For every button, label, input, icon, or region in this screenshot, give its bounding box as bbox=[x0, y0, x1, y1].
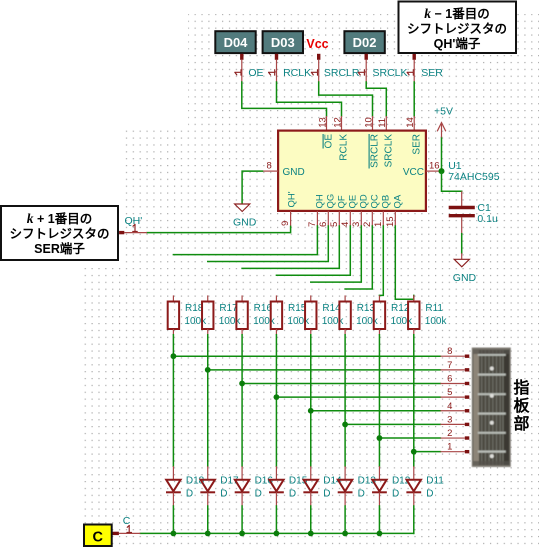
svg-text:k + 1番目の: k + 1番目の bbox=[27, 211, 92, 226]
wire R15 down to diode bbox=[275, 335, 277, 467]
svg-text:100k: 100k bbox=[322, 316, 345, 327]
svg-text:部: 部 bbox=[513, 414, 529, 433]
svg-text:D: D bbox=[289, 489, 296, 500]
svg-text:OE: OE bbox=[324, 134, 335, 149]
svg-text:RCLK: RCLK bbox=[339, 134, 350, 161]
wire pin to R15 bbox=[276, 226, 350, 275]
pin 16 VCC bbox=[426, 170, 442, 172]
resistor R16 bbox=[241, 295, 243, 301]
svg-text:R15: R15 bbox=[288, 303, 307, 314]
wire D12 to bus bbox=[378, 506, 380, 533]
svg-text:10: 10 bbox=[363, 117, 374, 128]
wire R18 down to diode bbox=[172, 335, 174, 467]
svg-text:11: 11 bbox=[377, 118, 388, 128]
wire D18 to bus bbox=[172, 506, 174, 533]
svg-text:QH': QH' bbox=[286, 191, 297, 207]
resistor R17 bbox=[207, 295, 209, 301]
svg-text:R11: R11 bbox=[425, 303, 443, 314]
svg-text:D11: D11 bbox=[426, 476, 444, 487]
svg-text:100k: 100k bbox=[390, 316, 413, 327]
wire pin to R14 bbox=[311, 226, 362, 282]
svg-text:R18: R18 bbox=[185, 303, 204, 314]
pin 6 QG bbox=[327, 211, 329, 226]
fretboard pin 6 bbox=[440, 382, 464, 384]
svg-text:5: 5 bbox=[329, 222, 340, 227]
pin 13 bbox=[326, 116, 328, 131]
fretboard pin 3 bbox=[440, 423, 464, 425]
wire D15 to bus bbox=[275, 506, 277, 533]
svg-text:9: 9 bbox=[280, 221, 291, 226]
svg-text:100k: 100k bbox=[287, 316, 310, 327]
wire row 3 bbox=[345, 423, 440, 425]
svg-text:D: D bbox=[426, 489, 433, 500]
connector D02 bbox=[344, 31, 384, 53]
pin 11 bbox=[385, 116, 387, 131]
svg-text:QE: QE bbox=[347, 195, 358, 209]
svg-text:1: 1 bbox=[373, 222, 384, 227]
+5V symbol bbox=[441, 123, 443, 138]
svg-text:100k: 100k bbox=[356, 316, 379, 327]
svg-text:RCLK: RCLK bbox=[283, 67, 311, 79]
resistor R18 bbox=[172, 295, 174, 301]
pin 10 bbox=[372, 116, 374, 131]
junction on bus bbox=[239, 531, 245, 537]
connector D03 bbox=[263, 31, 303, 53]
wire row 8 bbox=[173, 355, 440, 357]
wire R17 down to diode bbox=[207, 335, 209, 467]
pin number 1 for net SER bbox=[407, 71, 413, 73]
fretboard pin 8 bbox=[440, 355, 464, 357]
wire pin9 QH' to sheet pin bbox=[147, 226, 291, 232]
svg-text:VCC: VCC bbox=[403, 167, 424, 178]
junction row 2 bbox=[377, 435, 383, 441]
wire D03 to pin 12 RCLK bbox=[277, 82, 342, 116]
wire R12 down to diode bbox=[378, 335, 380, 467]
diode D14 bbox=[310, 466, 312, 479]
pin number 1 for net RCLK bbox=[269, 71, 275, 73]
svg-text:6: 6 bbox=[318, 222, 329, 227]
wire pin to R12 bbox=[379, 226, 383, 295]
svg-text:D: D bbox=[186, 489, 193, 500]
svg-text:74AHC595: 74AHC595 bbox=[448, 171, 500, 183]
fretboard pin 2 bbox=[440, 437, 464, 439]
sheet pin C bbox=[119, 532, 140, 534]
junction row 8 bbox=[171, 353, 177, 359]
svg-text:2: 2 bbox=[362, 222, 373, 227]
svg-text:3: 3 bbox=[447, 414, 452, 425]
svg-text:シフトレジスタの: シフトレジスタの bbox=[9, 226, 109, 241]
svg-text:3: 3 bbox=[351, 222, 362, 227]
wire pin16 to +5V and C1 bbox=[441, 137, 443, 171]
wire row 1 bbox=[414, 451, 441, 453]
wire D13 to bus bbox=[344, 506, 346, 533]
junction on bus bbox=[205, 531, 211, 537]
svg-text:OE: OE bbox=[248, 67, 263, 79]
wire row 5 bbox=[276, 396, 440, 398]
wire R11 down to diode bbox=[413, 335, 415, 467]
svg-text:16: 16 bbox=[429, 161, 440, 172]
svg-text:板: 板 bbox=[513, 396, 530, 415]
wire row 7 bbox=[208, 369, 441, 371]
ground (below C1) bbox=[461, 253, 463, 259]
svg-text:QB: QB bbox=[380, 195, 391, 209]
svg-text:SRCLK: SRCLK bbox=[384, 134, 395, 168]
wire pin to R11 bbox=[395, 226, 413, 299]
svg-text:QH'端子: QH'端子 bbox=[434, 36, 481, 51]
pin number 1 for net OE bbox=[235, 71, 241, 73]
overline of SRCLR bbox=[368, 134, 370, 169]
svg-text:指: 指 bbox=[513, 378, 529, 397]
diode D17 bbox=[207, 466, 209, 479]
svg-text:C: C bbox=[93, 530, 104, 546]
connector D04 bbox=[215, 31, 255, 53]
svg-text:D03: D03 bbox=[271, 35, 295, 50]
pin 7 QH bbox=[316, 211, 318, 226]
resistor R15 bbox=[275, 295, 277, 301]
pin of Vcc flag bbox=[317, 54, 320, 60]
fretboard pin 7 bbox=[440, 369, 464, 371]
resistor R13 bbox=[344, 295, 346, 301]
junction on bus bbox=[308, 531, 314, 537]
wire pin to R13 bbox=[345, 226, 372, 289]
sheet pin QH' bbox=[124, 232, 147, 234]
pin 8 GND bbox=[263, 170, 279, 172]
annotation box: k+1 shift register SER bbox=[1, 206, 118, 260]
diode D15 bbox=[275, 466, 277, 479]
overline of OE bbox=[322, 134, 324, 149]
label box C bbox=[84, 525, 112, 547]
svg-text:SRCLR: SRCLR bbox=[324, 67, 360, 79]
pin 2 QC bbox=[371, 211, 373, 226]
junction on bus bbox=[274, 531, 280, 537]
junction row 5 bbox=[274, 394, 280, 400]
resistor R11 bbox=[413, 295, 415, 301]
svg-text:QF: QF bbox=[336, 195, 347, 208]
wire D14 to bus bbox=[310, 506, 312, 533]
pin 14 bbox=[413, 116, 415, 131]
pin from sheet QH') bbox=[413, 54, 416, 60]
svg-text:GND: GND bbox=[233, 217, 257, 229]
svg-text:8: 8 bbox=[267, 161, 272, 172]
svg-text:D04: D04 bbox=[224, 35, 249, 50]
svg-text:D: D bbox=[358, 489, 365, 500]
resistor R12 bbox=[378, 295, 380, 301]
pin 1 of D03 bbox=[275, 54, 278, 60]
wire D16 to bus bbox=[241, 506, 243, 533]
wire SER to pin 14 bbox=[413, 82, 415, 116]
svg-text:Vcc: Vcc bbox=[306, 37, 328, 51]
junction row 3 bbox=[342, 422, 348, 428]
junction row 1 bbox=[411, 449, 417, 455]
svg-text:12: 12 bbox=[332, 117, 343, 128]
svg-text:6: 6 bbox=[447, 373, 452, 384]
diode D12 bbox=[378, 466, 380, 479]
capacitor C1 0.1u bbox=[461, 191, 463, 206]
svg-text:QA: QA bbox=[392, 194, 403, 208]
svg-text:R14: R14 bbox=[322, 303, 341, 314]
pin 15 QA bbox=[394, 211, 396, 226]
svg-text:D: D bbox=[255, 489, 262, 500]
wire pin to R18 bbox=[173, 226, 317, 255]
pin number 1 for net SRCLK bbox=[358, 71, 364, 73]
svg-text:R17: R17 bbox=[219, 303, 238, 314]
svg-text:シフトレジスタの: シフトレジスタの bbox=[407, 21, 507, 36]
junction on bus bbox=[342, 531, 348, 537]
wire D11 to bus bbox=[413, 506, 415, 533]
pin 1 of D04 bbox=[240, 54, 243, 60]
pin 1 QB bbox=[382, 211, 384, 226]
junction on bus bbox=[171, 531, 177, 537]
svg-text:SRCLR: SRCLR bbox=[370, 134, 381, 168]
wire C1 to GND bbox=[461, 234, 463, 254]
svg-text:D: D bbox=[323, 489, 330, 500]
svg-text:SRCLK: SRCLK bbox=[373, 67, 408, 79]
wire bottom bus C bbox=[140, 532, 413, 534]
svg-text:R13: R13 bbox=[357, 303, 376, 314]
pin 3 QD bbox=[360, 211, 362, 226]
wire Vcc to pin 10 SRCLR bbox=[319, 82, 373, 116]
wire row 6 bbox=[242, 382, 440, 384]
ground (left of IC) bbox=[235, 204, 250, 212]
annotation box: k-1 shift register QH bbox=[399, 2, 517, 54]
svg-text:+5V: +5V bbox=[434, 106, 453, 118]
svg-text:k − 1番目の: k − 1番目の bbox=[424, 6, 489, 21]
svg-text:SER: SER bbox=[411, 134, 422, 155]
pin number 1 for net SRCLR bbox=[311, 71, 317, 73]
diode D18 bbox=[172, 466, 174, 479]
svg-text:SER端子: SER端子 bbox=[34, 241, 85, 256]
svg-text:7: 7 bbox=[307, 222, 318, 227]
wire pin to R16 bbox=[242, 226, 339, 268]
svg-text:14: 14 bbox=[405, 117, 416, 128]
wire row 2 bbox=[379, 437, 440, 439]
pin 1 of D02 bbox=[365, 54, 368, 60]
svg-text:100k: 100k bbox=[219, 316, 242, 327]
svg-text:QG: QG bbox=[325, 194, 336, 209]
svg-text:100k: 100k bbox=[184, 316, 207, 327]
diode D11 bbox=[413, 466, 415, 479]
wire to capacitor C1 bbox=[442, 171, 462, 191]
wire D04 to pin 13 OE bbox=[242, 82, 327, 116]
svg-text:8: 8 bbox=[447, 346, 452, 357]
wire pin to R17 bbox=[208, 226, 329, 262]
svg-text:SER: SER bbox=[421, 67, 443, 79]
pin 4 QE bbox=[349, 211, 351, 226]
svg-text:13: 13 bbox=[317, 117, 328, 128]
svg-text:D02: D02 bbox=[353, 35, 377, 50]
svg-text:R12: R12 bbox=[391, 303, 410, 314]
fretboard pin 4 bbox=[440, 410, 464, 412]
svg-text:5: 5 bbox=[447, 387, 452, 398]
svg-text:100k: 100k bbox=[253, 316, 276, 327]
svg-text:15: 15 bbox=[385, 216, 396, 227]
pin 12 bbox=[341, 116, 343, 131]
svg-text:D: D bbox=[392, 489, 399, 500]
junction row 4 bbox=[308, 408, 314, 414]
diode D13 bbox=[344, 466, 346, 479]
svg-text:D: D bbox=[220, 489, 227, 500]
wire R13 down to diode bbox=[344, 335, 346, 467]
junction row 6 bbox=[239, 381, 245, 387]
svg-text:GND: GND bbox=[283, 167, 305, 178]
junction row 7 bbox=[205, 367, 211, 373]
wire D17 to bus bbox=[207, 506, 209, 533]
svg-text:7: 7 bbox=[447, 360, 452, 371]
svg-text:QD: QD bbox=[358, 194, 369, 208]
svg-text:1: 1 bbox=[447, 442, 452, 453]
diode D16 bbox=[241, 466, 243, 479]
IC U1 74AHC595 body bbox=[278, 131, 426, 211]
pin 9 QH' bbox=[290, 211, 292, 227]
junction at pin 16 bbox=[439, 168, 445, 174]
svg-text:R16: R16 bbox=[254, 303, 273, 314]
svg-text:4: 4 bbox=[340, 222, 351, 227]
svg-text:4: 4 bbox=[447, 401, 452, 412]
junction on bus bbox=[377, 531, 383, 537]
fretboard pin 5 bbox=[440, 396, 464, 398]
svg-text:QH: QH bbox=[314, 194, 325, 208]
svg-text:GND: GND bbox=[453, 272, 477, 284]
wire pin8 to GND bbox=[242, 171, 262, 203]
svg-text:2: 2 bbox=[447, 428, 452, 439]
wire R16 down to diode bbox=[241, 335, 243, 467]
svg-text:100k: 100k bbox=[425, 316, 448, 327]
pin 5 QF bbox=[338, 211, 340, 226]
fretboard pin 1 bbox=[440, 451, 464, 453]
wire D02 to pin 11 SRCLK bbox=[366, 82, 386, 116]
svg-text:QC: QC bbox=[369, 194, 380, 208]
resistor R14 bbox=[310, 295, 312, 301]
wire row 4 bbox=[311, 410, 441, 412]
wire R14 down to diode bbox=[310, 335, 312, 467]
svg-text:0.1u: 0.1u bbox=[477, 213, 498, 225]
